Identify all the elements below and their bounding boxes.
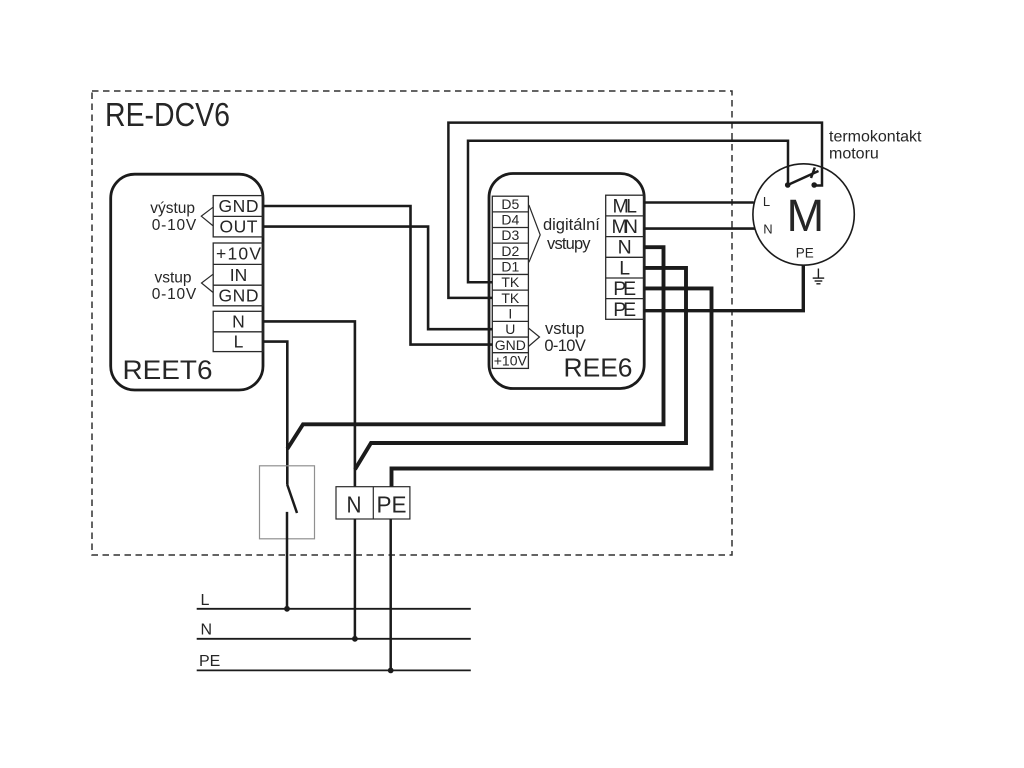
svg-text:GND: GND (219, 286, 259, 306)
svg-text:výstup: výstup (150, 200, 195, 217)
svg-text:PE: PE (377, 491, 407, 517)
svg-text:ML: ML (612, 195, 637, 217)
svg-text:D2: D2 (501, 243, 519, 259)
svg-text:L: L (201, 592, 210, 609)
svg-text:N: N (347, 491, 362, 517)
svg-text:TK: TK (501, 290, 520, 306)
svg-text:L: L (234, 332, 244, 352)
svg-text:0-10V: 0-10V (152, 286, 197, 303)
svg-text:PE: PE (613, 278, 636, 300)
svg-text:N: N (618, 237, 632, 259)
svg-text:U: U (505, 321, 515, 337)
svg-text:GND: GND (219, 196, 259, 216)
svg-text:D4: D4 (501, 212, 519, 228)
svg-text:RE-DCV6: RE-DCV6 (105, 96, 230, 133)
svg-text:PE: PE (796, 246, 814, 261)
svg-text:L: L (763, 194, 770, 209)
svg-text:vstup: vstup (154, 270, 191, 287)
svg-text:TK: TK (501, 274, 520, 290)
svg-text:termokontakt: termokontakt (829, 129, 922, 146)
svg-text:IN: IN (230, 265, 248, 285)
svg-text:digitální: digitální (543, 216, 600, 234)
svg-text:PE: PE (613, 299, 636, 321)
svg-text:M: M (787, 190, 825, 241)
svg-text:REE6: REE6 (564, 353, 633, 383)
svg-text:N: N (201, 621, 213, 638)
svg-text:PE: PE (199, 653, 220, 670)
svg-text:MN: MN (611, 216, 638, 238)
svg-text:N: N (763, 222, 772, 237)
svg-text:D1: D1 (501, 259, 519, 275)
svg-text:L: L (619, 257, 630, 279)
svg-text:N: N (232, 312, 245, 332)
svg-text:D3: D3 (501, 227, 519, 243)
svg-text:vstupy: vstupy (547, 235, 591, 253)
svg-text:GND: GND (495, 337, 526, 353)
svg-text:motoru: motoru (829, 146, 879, 163)
svg-text:D5: D5 (501, 196, 519, 212)
svg-text:+10V: +10V (216, 244, 261, 264)
svg-text:0-10V: 0-10V (152, 217, 197, 234)
svg-text:+10V: +10V (494, 352, 528, 368)
svg-text:vstup: vstup (545, 320, 584, 338)
svg-text:REET6: REET6 (123, 355, 213, 385)
svg-text:OUT: OUT (220, 217, 258, 237)
svg-text:I: I (508, 306, 512, 322)
